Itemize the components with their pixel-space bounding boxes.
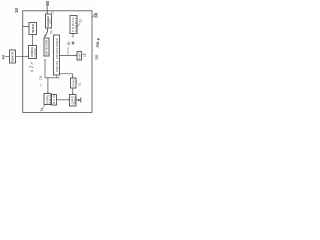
wire: TALL to R2 (60, 55, 77, 57)
box M (middle narrow tall) (44, 38, 49, 56)
outer enclosure box 60 (23, 11, 92, 113)
arrowhead into B (27, 56, 29, 58)
wire: bus up arrow under M (44, 60, 46, 78)
svg-text:0: 0 (30, 70, 34, 72)
wire: TALL right then down into R3 (60, 74, 73, 77)
wire: bus under TALL (45, 77, 60, 79)
box TALL (central processor) (54, 35, 60, 75)
numeral right of R2 (82, 54, 83, 55)
svg-text:MEM: MEM (53, 96, 56, 105)
svg-text:UNIT: UNIT (48, 95, 51, 104)
svg-text:68: 68 (83, 53, 87, 57)
wire: bus down into B1 (47, 78, 49, 93)
box R2 (small right) (77, 52, 82, 61)
svg-text:7: 7 (30, 65, 36, 68)
svg-text:DRIVE: DRIVE (72, 79, 75, 87)
numeral 60 top-right outside with leader (92, 15, 94, 18)
arrowhead into R4 (72, 93, 74, 95)
box A (left column top) (29, 23, 37, 35)
numeral 62 right of R1 with leader (77, 24, 79, 27)
box R3 (71, 78, 77, 88)
svg-text:SIGNAL PROCESSOR: SIGNAL PROCESSOR (55, 38, 59, 72)
arrowhead into A (27, 26, 29, 28)
svg-text:SENSOR: SENSOR (31, 23, 35, 33)
svg-text:AMP: AMP (78, 52, 81, 59)
svg-text:REMOTE: REMOTE (11, 51, 15, 62)
wire: B2 to R4 (57, 99, 69, 101)
svg-text:60: 60 (94, 12, 99, 17)
arrowhead up toward M (44, 59, 46, 61)
wire: TALL bottom to bus (56, 75, 58, 78)
svg-text:6: 6 (39, 84, 43, 86)
svg-text:54: 54 (49, 30, 53, 34)
wire: R3 down into R4 (72, 88, 74, 94)
wire: stub from left edge into A (23, 26, 28, 28)
svg-text:SUPPLY: SUPPLY (74, 17, 78, 32)
box B1 (44, 94, 51, 105)
box B (left column second) (29, 46, 37, 59)
arrowhead into R3 (72, 76, 74, 78)
arrowhead into B1 (47, 92, 49, 94)
svg-text:56: 56 (94, 54, 99, 59)
svg-text:52: 52 (50, 11, 54, 15)
arrowhead into M (44, 35, 46, 37)
numeral 66 leader above wire (67, 47, 69, 55)
svg-text:DETECTOR: DETECTOR (45, 40, 49, 55)
wire: A down to B (32, 35, 34, 46)
arrowhead into R2 (75, 55, 77, 57)
numeral right of R3 (76, 81, 78, 84)
wire: antenna input line into box T1 (46, 6, 48, 14)
box EXT (outside left) (10, 50, 16, 63)
box B2 (52, 95, 57, 106)
wire stub below R1 (72, 34, 74, 38)
arrowhead into R4 left (68, 99, 70, 101)
svg-text:6: 6 (95, 37, 100, 40)
leader + numeral below B1 (42, 105, 44, 109)
arrow blob below R1 (72, 41, 75, 44)
svg-text:UNIT: UNIT (50, 17, 52, 24)
arrow blob right of R4 (76, 99, 78, 101)
box R1 (top right) (70, 16, 77, 34)
box R4 (70, 95, 77, 107)
svg-text:64: 64 (2, 54, 6, 59)
svg-text:78: 78 (40, 108, 44, 112)
svg-text:FIG.: FIG. (96, 41, 100, 48)
svg-text:50: 50 (45, 0, 50, 5)
svg-text:72: 72 (78, 83, 82, 87)
wire: T1 down with arrow into box M (45, 28, 48, 37)
svg-text:74: 74 (39, 76, 43, 80)
box T1 (top middle) (46, 14, 52, 28)
svg-text:62: 62 (79, 19, 83, 23)
svg-text:LOGIC: LOGIC (33, 48, 37, 57)
svg-text:66: 66 (67, 42, 71, 46)
wire: EXT into outer box to B (5, 55, 28, 57)
svg-text:10: 10 (14, 8, 19, 13)
